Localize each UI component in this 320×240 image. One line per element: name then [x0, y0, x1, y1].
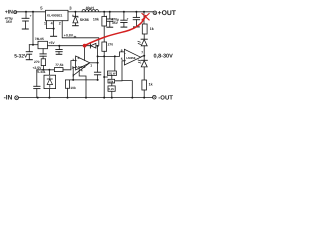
node junction C8-rail — [37, 97, 39, 99]
node LED chain top — [143, 11, 145, 13]
diode D1 SK86 — [73, 12, 89, 26]
potentiometer P1 — [104, 56, 116, 98]
capacitor C5 output — [133, 12, 139, 27]
svg-text:SK86: SK86 — [80, 18, 89, 22]
wire opamp1 gnd — [79, 68, 86, 97]
diode D4 to FB — [90, 43, 98, 48]
svg-text:-OUT: -OUT — [158, 95, 173, 102]
svg-text:−: − — [124, 52, 126, 56]
wire opamp1 feedback diagonal — [74, 63, 90, 76]
regulator U2 78L05 — [35, 37, 48, 49]
node junction pin5-rail — [131, 97, 133, 99]
capacitor C2 100n input lower — [26, 45, 32, 60]
svg-text:+IN: +IN — [5, 10, 13, 16]
svg-text:+0.8V: +0.8V — [64, 34, 74, 38]
wire divider to bottom — [103, 56, 105, 97]
svg-text:−: − — [76, 65, 78, 69]
wire opamp1 node vertical — [97, 46, 99, 63]
svg-text:+: + — [30, 14, 32, 18]
node junction divider-rail — [103, 97, 105, 99]
svg-text:10k: 10k — [93, 18, 99, 22]
LED D2 — [138, 34, 147, 56]
wire to out rail — [143, 90, 145, 98]
reference U3 TL431 — [36, 69, 55, 98]
wire FB pin2 down — [62, 21, 99, 46]
terminal -OUT — [153, 95, 157, 99]
svg-text:35V: 35V — [6, 20, 13, 24]
node junction input cap — [25, 11, 27, 13]
node op2 out junction — [143, 55, 145, 57]
node junction 78L05 feed — [32, 11, 34, 13]
resistor R1 10k — [93, 12, 107, 26]
node +2.5V wire — [37, 69, 55, 71]
wire red modification — [83, 14, 149, 48]
svg-text:3: 3 — [72, 58, 74, 62]
svg-text:10k: 10k — [70, 86, 76, 90]
wire 78L05 feed down — [32, 12, 34, 45]
resistor R3 1k lower — [142, 80, 153, 90]
op IC U1 XL4005E1 — [46, 10, 69, 20]
svg-text:77,5k: 77,5k — [55, 63, 63, 67]
svg-text:3: 3 — [69, 5, 72, 10]
svg-text:LM358: LM358 — [126, 56, 135, 60]
svg-text:270: 270 — [108, 42, 114, 46]
svg-text:1k: 1k — [149, 82, 153, 86]
terminal +IN — [14, 11, 17, 14]
svg-text:1: 1 — [44, 22, 46, 26]
wire opamp2 output — [141, 56, 145, 57]
svg-text:5-32V: 5-32V — [14, 53, 28, 59]
svg-text:10k: 10k — [109, 80, 114, 84]
capacitor C1 470u 35V input — [5, 12, 32, 29]
svg-text:1: 1 — [90, 63, 92, 67]
svg-text:270: 270 — [34, 60, 40, 64]
wire +5V — [48, 45, 90, 47]
resistor R7 10k — [65, 80, 76, 98]
op-amp U4a LM358 — [72, 46, 98, 73]
wire bottom rail — [19, 97, 153, 99]
node junction TL431-rail — [48, 97, 50, 99]
wire divider chain — [103, 26, 105, 42]
capacitor C9 opamp out — [94, 63, 100, 80]
svg-text:1k: 1k — [150, 27, 154, 31]
node junction pin2-feedback — [72, 79, 74, 81]
wire crossed out — [143, 12, 145, 24]
svg-text:35V: 35V — [112, 21, 119, 25]
node junction pot-W1 — [114, 55, 116, 57]
svg-text:0,25: 0,25 — [109, 87, 115, 91]
wire red X cross-out — [142, 14, 149, 20]
op-amp U4b LM358 — [121, 48, 144, 65]
resistor R6 270 divider — [102, 42, 113, 56]
svg-text:6: 6 — [121, 48, 123, 52]
svg-text:XL4005E1: XL4005E1 — [47, 13, 63, 17]
svg-text:+: + — [105, 14, 107, 18]
svg-text:m: m — [74, 34, 77, 38]
terminal -IN — [15, 96, 19, 100]
wire top rail input — [17, 11, 46, 13]
node junction diode-FB — [97, 45, 99, 47]
svg-text:+: + — [127, 17, 129, 21]
wire opamp1 inverting input — [73, 67, 75, 80]
wire opamp2 +input — [115, 61, 133, 98]
svg-text:-IN: -IN — [4, 95, 13, 102]
svg-text:5: 5 — [121, 57, 123, 61]
svg-text:0,8-30V: 0,8-30V — [154, 54, 174, 60]
svg-text:4: 4 — [51, 22, 53, 26]
capacitor C3 470u 35V output — [105, 12, 119, 27]
svg-text:+5V: +5V — [49, 41, 56, 45]
node junction W1-vertical — [97, 55, 99, 57]
wire W1 opamp2 input — [98, 52, 125, 57]
node junction divider-W1 — [103, 55, 105, 57]
svg-text:5: 5 — [40, 5, 43, 10]
capacitor C4 output — [121, 12, 129, 27]
node 5V cap — [58, 45, 60, 47]
wire feedback bottom — [68, 79, 98, 81]
node junction opamp1-gnd-rail — [85, 97, 87, 99]
svg-text:2: 2 — [59, 22, 61, 26]
node diode junction — [74, 11, 76, 13]
resistor R4 270 — [34, 59, 46, 71]
wire top rail output — [100, 11, 153, 13]
node junction opamp1 output — [97, 62, 99, 64]
svg-text:8: 8 — [78, 56, 80, 60]
resistor R5 77,5k — [54, 61, 75, 72]
svg-text:TL431: TL431 — [36, 70, 45, 74]
capacitor C6 5V rail — [56, 46, 62, 55]
node cap out2 — [123, 11, 125, 13]
capacitor C8 ref — [34, 70, 40, 98]
wire pin3 to coil — [68, 11, 82, 13]
node junction C9-feedback — [97, 79, 99, 81]
capacitor C7 under 78L05 — [40, 49, 46, 59]
node junction wiper — [103, 76, 105, 78]
node cap out3 — [135, 11, 137, 13]
node cap out1 — [109, 11, 111, 13]
svg-text:78L05: 78L05 — [35, 37, 44, 41]
svg-text:+OUT: +OUT — [158, 10, 177, 17]
node junction R7-rail — [67, 97, 69, 99]
svg-text:7: 7 — [141, 50, 143, 54]
LED D3 — [138, 56, 147, 80]
ground chip — [53, 29, 55, 36]
resistor R2 1k — [142, 24, 154, 34]
node divider top — [103, 11, 105, 13]
terminal +OUT — [153, 11, 157, 15]
inductor L1 40uH — [82, 6, 100, 12]
